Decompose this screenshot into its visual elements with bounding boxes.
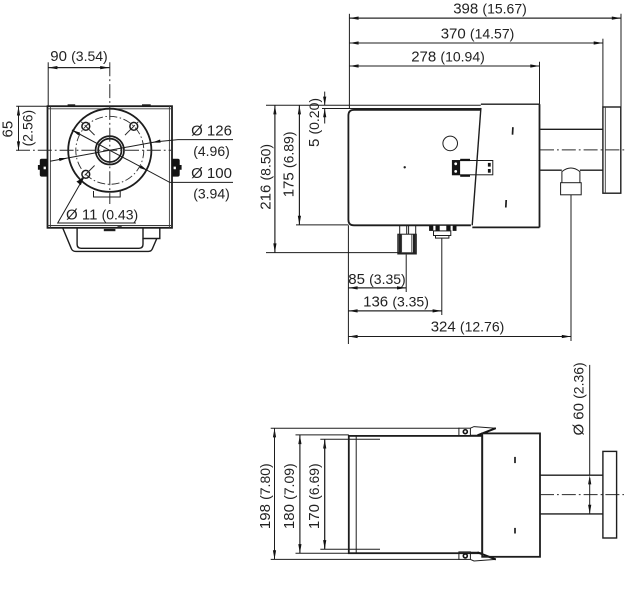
dimension 90 top [48,48,109,106]
knob circle on side body [443,136,458,151]
front view body outline [48,106,173,228]
svg-text:65: 65 [0,121,16,138]
vertical centerline [109,62,111,204]
svg-text:(4.96): (4.96) [193,143,230,159]
tube (bottom view) [540,475,603,514]
cover top line [266,104,481,106]
hole radial centerlines [80,120,95,135]
right clip (front view) [172,159,182,177]
dimension 370 [349,25,603,107]
small tick on body bottom edge [118,226,122,228]
front slant edge [472,108,481,225]
svg-text:136 (3.35): 136 (3.35) [363,294,429,311]
dimension 216 left [257,105,399,252]
svg-text:198 (7.80): 198 (7.80) [257,463,274,529]
dimension 170 [306,439,380,549]
small dot [404,166,406,168]
clip strip bottom line [271,558,460,560]
svg-text:Ø 11 (0.43): Ø 11 (0.43) [66,206,138,223]
svg-text:216 (8.50): 216 (8.50) [257,144,274,210]
svg-text:Ø 126: Ø 126 [191,123,232,140]
dimension 85 [348,255,406,292]
hood [472,104,539,227]
hood tick marks [512,127,514,135]
O126 label and diameter leader [50,123,233,162]
svg-text:(2.56): (2.56) [20,110,36,147]
top clip (bottom view) [459,427,496,436]
svg-text:85 (3.35): 85 (3.35) [348,271,405,288]
tube centerline (bottom view) [540,494,624,496]
svg-text:Ø 60 (2.36): Ø 60 (2.36) [571,362,588,435]
dimension 324 [348,225,571,344]
side connector plug [452,159,492,177]
flange (bottom view) [603,451,617,538]
dimension O60 [571,362,592,514]
svg-text:278 (10.94): 278 (10.94) [411,48,485,65]
bolt hole NE [130,122,138,130]
M12 socket under body [429,226,456,238]
dimension 180 [281,435,349,553]
O11 label and leader [58,178,138,224]
bottom clip (bottom view) [459,552,496,561]
bolt hole NW [82,122,90,130]
top edge bumps [68,104,76,106]
bolt circle O100 dash-dot [76,116,144,184]
svg-text:5 (0.20): 5 (0.20) [306,98,323,147]
hood (bottom view) [482,433,540,556]
svg-text:(3.94): (3.94) [193,185,230,201]
cable gland under tube [561,168,582,341]
flange [603,107,621,193]
dimension 65 left [0,106,51,150]
svg-text:370 (14.57): 370 (14.57) [441,25,515,42]
left clip (front view) [38,159,48,177]
tube centerline [540,149,625,151]
dimension 5 [306,92,327,147]
dimension 175 left [281,105,349,225]
dimension 278 [349,48,539,104]
bolt hole SW [82,170,90,178]
bottom view body [349,436,482,553]
dimension 198 [257,428,275,559]
hood ticks (bottom view) [514,457,516,463]
svg-text:398 (15.67): 398 (15.67) [453,0,527,17]
center shaft rings [96,136,124,164]
bottom cable gland on body [398,225,417,254]
svg-text:175 (6.89): 175 (6.89) [281,132,298,198]
foot bracket below front body [63,228,160,251]
flange circle O126 (bold) [68,109,151,192]
cover seam line [322,108,481,110]
dimension 398 [349,0,621,108]
svg-text:Ø 100: Ø 100 [191,165,232,182]
svg-text:180 (7.09): 180 (7.09) [281,463,298,529]
svg-text:170 (6.69): 170 (6.69) [306,463,323,529]
clip strip top line [271,427,460,429]
bottom tab under flange circle [94,191,121,197]
svg-text:90 (3.54): 90 (3.54) [50,48,107,65]
tube [540,129,603,170]
dimension 136 [348,238,441,315]
side body outline [348,110,480,225]
svg-text:324 (12.76): 324 (12.76) [431,319,505,336]
horizontal centerline [16,149,171,151]
O100 label and diameter leader [72,130,233,201]
